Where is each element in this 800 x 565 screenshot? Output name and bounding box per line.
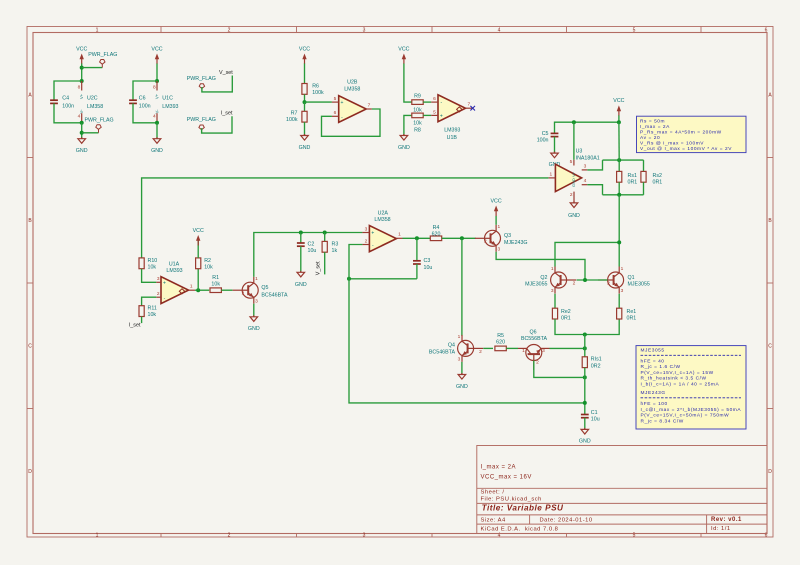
transistor Q5 BC546BTA xyxy=(233,277,259,304)
svg-text:LM393: LM393 xyxy=(166,268,182,274)
wire C6 bottom return xyxy=(133,103,157,122)
svg-text:C6: C6 xyxy=(139,95,146,101)
comparator U1B LM393 xyxy=(438,95,466,122)
U1B pin 6 inverting xyxy=(431,101,438,103)
svg-text:R2: R2 xyxy=(204,258,211,264)
svg-text:8: 8 xyxy=(78,85,81,91)
wire R7 to GND xyxy=(304,122,306,135)
junction divider node xyxy=(303,100,307,104)
svg-text:I_set: I_set xyxy=(129,323,141,329)
power flag for I_set net xyxy=(199,125,204,133)
svg-text:10k: 10k xyxy=(413,121,422,127)
wire R2 to VCC xyxy=(197,241,199,258)
svg-text:6: 6 xyxy=(334,110,337,116)
svg-text:1: 1 xyxy=(190,284,193,290)
wire to capacitor C4 xyxy=(54,81,82,100)
svg-text:VCC: VCC xyxy=(491,198,502,204)
power VCC (R2) xyxy=(193,228,204,246)
resistor Rs1 0R1 shunt xyxy=(618,160,620,171)
svg-text:100k: 100k xyxy=(312,90,324,96)
svg-text:MJE3055: MJE3055 xyxy=(525,281,547,287)
svg-text:+: + xyxy=(341,100,344,106)
wire R6 to junction xyxy=(304,94,306,102)
power GND (C5) xyxy=(549,152,561,169)
junction C2 top xyxy=(299,231,303,235)
wire Q6 emitter to RIs1 top xyxy=(541,347,550,349)
U3 pin 1 output xyxy=(548,177,555,179)
wire U3 pin5 supply xyxy=(573,122,575,160)
svg-text:Id: 1/1: Id: 1/1 xyxy=(711,526,731,532)
svg-text:PWR_FLAG: PWR_FLAG xyxy=(85,117,114,123)
svg-text:10u: 10u xyxy=(424,265,433,271)
wire PWR_FLAG to V_set xyxy=(202,76,232,92)
svg-text:VCC: VCC xyxy=(398,46,409,52)
svg-text:R6: R6 xyxy=(312,83,319,89)
resistor Re2 0R1 xyxy=(552,308,557,319)
svg-text:10k: 10k xyxy=(148,312,157,318)
svg-text:10u: 10u xyxy=(591,416,600,422)
capacitor C3 10u xyxy=(416,238,418,260)
wire divider to U2B pin5 xyxy=(305,101,332,103)
svg-text:5: 5 xyxy=(570,159,573,165)
op-amp U2A LM358 xyxy=(369,226,396,252)
power GND (block C4/U2C) xyxy=(76,137,88,154)
svg-text:1: 1 xyxy=(551,266,554,272)
svg-text:INA180A1: INA180A1 xyxy=(576,156,600,162)
wire R10 to U1A pin3 xyxy=(142,269,157,283)
wire R1 to Q5 base xyxy=(221,289,232,291)
svg-text:3: 3 xyxy=(363,28,366,34)
wire pin4 to gnd xyxy=(81,123,83,139)
wire Q6 base sense xyxy=(534,361,585,378)
svg-text:Av = 20: Av = 20 xyxy=(640,135,660,141)
title block xyxy=(477,446,767,534)
svg-text:GND V+: GND V+ xyxy=(571,171,576,187)
wire to bottom PWR_FLAG xyxy=(82,132,99,134)
svg-text:4: 4 xyxy=(78,114,81,120)
junction C4 bottom xyxy=(80,121,84,125)
wire C2 to GND xyxy=(300,246,302,272)
svg-text:LM358: LM358 xyxy=(374,217,390,223)
power VCC (block C6/U1C) xyxy=(151,46,162,64)
svg-text:D: D xyxy=(28,469,32,475)
power GND (block C6/U1C) xyxy=(151,137,163,154)
wire R8 to U1B pin5 xyxy=(423,114,431,116)
svg-text:RIs1: RIs1 xyxy=(591,356,602,362)
svg-text:MJE243G: MJE243G xyxy=(504,240,528,246)
svg-text:R_jc = 8.34 C/W: R_jc = 8.34 C/W xyxy=(641,418,684,424)
wire R11 to I_set xyxy=(141,317,143,324)
svg-text:I_max = 2A: I_max = 2A xyxy=(481,464,517,470)
power VCC (Q3) xyxy=(491,198,502,216)
svg-text:C1: C1 xyxy=(591,410,598,416)
junction Q3/Q4 drive node xyxy=(460,236,464,240)
svg-text:File: PSU.kicad_sch: File: PSU.kicad_sch xyxy=(481,496,542,502)
svg-text:R_th_heatsink < 3.5 C/W: R_th_heatsink < 3.5 C/W xyxy=(641,376,707,382)
wire Re2 to emitter rail xyxy=(555,319,619,335)
svg-text:3: 3 xyxy=(584,163,587,169)
svg-text:3: 3 xyxy=(363,533,366,539)
svg-text:I_set: I_set xyxy=(221,111,233,117)
svg-text:P(V_ce=15V,I_c=1A) = 15W: P(V_ce=15V,I_c=1A) = 15W xyxy=(641,370,714,376)
wire R5 to Q6 xyxy=(506,347,518,349)
wire R4 to Q3 base xyxy=(442,237,476,239)
wire R3 top xyxy=(324,233,326,242)
svg-text:5: 5 xyxy=(433,109,436,115)
junction emitter rail to RIs1 xyxy=(583,333,587,337)
svg-text:8: 8 xyxy=(153,85,156,91)
power GND (C1) xyxy=(579,428,591,445)
svg-text:4: 4 xyxy=(498,28,501,34)
wire Q4 base to R5 xyxy=(483,347,493,349)
svg-text:MJE3055: MJE3055 xyxy=(628,281,650,287)
svg-text:3: 3 xyxy=(621,288,624,294)
svg-text:Q3: Q3 xyxy=(504,233,511,239)
svg-text:2: 2 xyxy=(570,192,573,198)
svg-text:2: 2 xyxy=(242,291,245,297)
U1A open-collector mark xyxy=(179,289,184,294)
svg-text:10k: 10k xyxy=(148,264,157,270)
svg-text:LM358: LM358 xyxy=(87,104,103,110)
resistor RIs1 0R2 xyxy=(582,357,587,368)
wire U1A out to R1 xyxy=(195,289,209,291)
svg-text:VCC: VCC xyxy=(299,46,310,52)
power GND (Q4) xyxy=(456,373,468,390)
svg-text:V-: V- xyxy=(79,109,84,114)
wire VCC to R6 xyxy=(304,64,306,84)
wire shunt top rail xyxy=(603,159,644,161)
junction cap C4 top xyxy=(80,79,84,83)
junction shunt top xyxy=(617,158,621,162)
svg-text:GND: GND xyxy=(579,439,591,445)
wire C4 bottom return xyxy=(54,103,82,122)
svg-text:R8: R8 xyxy=(414,127,421,133)
svg-text:3: 3 xyxy=(551,288,554,294)
capacitor C4 100n xyxy=(50,100,58,103)
U2A pin 3 non-inverting xyxy=(362,232,369,234)
svg-text:PWR_FLAG: PWR_FLAG xyxy=(88,52,117,58)
svg-text:U1B: U1B xyxy=(447,135,458,141)
svg-text:hFE = 40: hFE = 40 xyxy=(641,358,665,364)
U1A pin 3 non-inverting xyxy=(156,281,161,283)
svg-text:LM393: LM393 xyxy=(162,104,178,110)
junction PWR_FLAG bottom node xyxy=(80,131,84,135)
junction RIs1 top node xyxy=(583,346,587,350)
wire U2B feedback loop xyxy=(322,109,381,136)
svg-text:1: 1 xyxy=(458,334,461,340)
svg-text:C2: C2 xyxy=(308,241,315,247)
svg-text:1: 1 xyxy=(497,224,500,230)
transistor Q1 MJE3055 xyxy=(598,267,624,294)
resistor Rs2 0R1 shunt xyxy=(643,160,645,171)
svg-text:PWR_FLAG: PWR_FLAG xyxy=(187,117,216,123)
junction VCC/PWR_FLAG node xyxy=(80,66,84,70)
wire VCC down to sense rail xyxy=(618,115,620,122)
svg-text:2: 2 xyxy=(607,280,610,286)
wire VCC down xyxy=(156,64,158,82)
svg-text:VCC: VCC xyxy=(613,98,624,104)
capacitor C5 100n xyxy=(551,133,559,136)
svg-text:KiCad E.D.A. kicad 7.0.8: KiCad E.D.A. kicad 7.0.8 xyxy=(481,526,559,532)
svg-text:1: 1 xyxy=(255,276,258,282)
power VCC (block C4/U2C) xyxy=(76,46,87,64)
junction C3 top xyxy=(415,236,419,240)
svg-text:Re1: Re1 xyxy=(627,309,637,315)
resistor R8 10k xyxy=(412,113,423,118)
svg-text:BC546BTA: BC546BTA xyxy=(429,350,456,356)
power flag PWR_FLAG top xyxy=(100,60,105,68)
wire Q4 emitter to GND xyxy=(461,362,463,375)
svg-text:Rs = 50m: Rs = 50m xyxy=(640,119,665,125)
wire C5 to GND xyxy=(554,137,556,154)
power VCC (U1B) xyxy=(398,46,409,64)
wire VCC to shunt xyxy=(618,122,620,160)
svg-text:GND: GND xyxy=(398,145,410,151)
svg-text:U1A: U1A xyxy=(169,261,180,267)
svg-text:R7: R7 xyxy=(291,110,298,116)
wire VCC to junction xyxy=(81,64,83,82)
svg-text:+: + xyxy=(163,281,166,287)
resistor R7 100k xyxy=(304,102,306,111)
wire VCC to R9 xyxy=(404,64,412,103)
U1A pin 1 output xyxy=(189,289,196,291)
svg-text:6: 6 xyxy=(433,96,436,102)
svg-text:GND: GND xyxy=(248,326,260,332)
U1B pin 5 non-inverting xyxy=(431,114,438,116)
svg-text:5: 5 xyxy=(334,96,337,102)
svg-text:Size: A4: Size: A4 xyxy=(481,517,507,523)
junction U3 supply tap xyxy=(572,120,576,124)
U3 pin 2 GND xyxy=(573,192,575,203)
U3 pin 3 +IN xyxy=(582,169,588,171)
svg-text:10k: 10k xyxy=(211,282,220,288)
svg-text:Q6: Q6 xyxy=(529,329,536,335)
svg-text:100n: 100n xyxy=(139,104,151,110)
wire RIs1 to output node xyxy=(584,368,586,415)
svg-text:Title: Variable PSU: Title: Variable PSU xyxy=(482,504,564,513)
transistor Q4 BC546BTA xyxy=(458,335,484,362)
resistor R6 100k xyxy=(302,84,307,95)
svg-text:R11: R11 xyxy=(148,306,157,312)
svg-text:I_c@I_max = 2*I_b(MJE3055) = 5: I_c@I_max = 2*I_b(MJE3055) = 50mA xyxy=(641,407,742,413)
svg-text:I_b(I_c=1A) = 1A / 40 = 25mA: I_b(I_c=1A) = 1A / 40 = 25mA xyxy=(641,381,720,387)
svg-text:Re2: Re2 xyxy=(561,309,571,315)
svg-text:PWR_FLAG: PWR_FLAG xyxy=(187,76,216,82)
wire pin4 to shunt bottom xyxy=(587,185,602,195)
svg-text:R3: R3 xyxy=(332,241,339,247)
wire drive node down to Q4 xyxy=(461,238,463,336)
capacitor C2 10u xyxy=(297,243,305,246)
svg-text:Sheet: /: Sheet: / xyxy=(481,490,505,496)
svg-text:Rs1: Rs1 xyxy=(628,173,637,179)
svg-text:BC546BTA: BC546BTA xyxy=(261,293,288,299)
svg-text:R5: R5 xyxy=(497,333,504,339)
svg-text:4: 4 xyxy=(584,178,587,184)
U2A pin 2 inverting xyxy=(362,244,369,246)
wire U3 output to R10 rail xyxy=(142,178,549,258)
power GND (Q5) xyxy=(248,315,260,332)
svg-text:hFE = 100: hFE = 100 xyxy=(641,401,668,407)
junction base rail xyxy=(583,278,587,282)
svg-text:100n: 100n xyxy=(537,138,549,144)
resistor R9 10k xyxy=(412,100,423,105)
junction feedback node xyxy=(347,277,351,281)
capacitor C1 10u xyxy=(581,415,589,418)
wire Q3 emitter to base rail xyxy=(496,252,585,280)
svg-text:VCC: VCC xyxy=(76,46,87,52)
resistor R10 10k xyxy=(139,258,144,269)
svg-text:V_set: V_set xyxy=(316,261,322,275)
svg-text:C: C xyxy=(28,344,32,350)
junction RIs1 bottom node xyxy=(583,375,587,379)
svg-text:+: + xyxy=(371,231,374,237)
svg-text:Q2: Q2 xyxy=(540,275,547,281)
transistor Q6 BC556BTA xyxy=(526,345,542,370)
svg-text:2: 2 xyxy=(157,291,160,297)
svg-text:Q4: Q4 xyxy=(448,342,455,348)
wire to PWR_FLAG xyxy=(82,67,103,69)
svg-text:1: 1 xyxy=(549,171,552,177)
svg-text:LM358: LM358 xyxy=(344,87,360,93)
amplifier U3 INA180A1 xyxy=(573,160,575,166)
wire base rail Q2-Q1 xyxy=(577,279,608,281)
svg-text:1: 1 xyxy=(621,266,624,272)
svg-text:Q5: Q5 xyxy=(261,285,268,291)
svg-text:2: 2 xyxy=(228,533,231,539)
svg-text:5: 5 xyxy=(633,28,636,34)
junction shunt bottom xyxy=(617,193,621,197)
junction U1A output node xyxy=(196,288,200,292)
svg-text:3: 3 xyxy=(157,276,160,282)
wire to capacitor C6 xyxy=(133,81,157,100)
svg-text:P_Rs_max = 4A*50m = 200mW: P_Rs_max = 4A*50m = 200mW xyxy=(640,130,722,136)
wire C1 to GND xyxy=(584,418,586,430)
svg-text:C5: C5 xyxy=(542,131,549,137)
capacitor C6 100n xyxy=(129,100,137,103)
resistor Re1 0R1 xyxy=(617,308,622,319)
power flag PWR_FLAG bottom xyxy=(96,125,101,133)
svg-text:I_max = 2A: I_max = 2A xyxy=(640,124,670,130)
svg-text:2: 2 xyxy=(365,238,368,244)
svg-text:V+: V+ xyxy=(79,93,84,99)
svg-text:P(V_ce=15V,I_c=50mA) = 750mW: P(V_ce=15V,I_c=50mA) = 750mW xyxy=(641,413,730,419)
svg-text:GND: GND xyxy=(295,282,307,288)
svg-text:+: + xyxy=(440,114,443,120)
junction C6 bottom xyxy=(155,121,159,125)
svg-text:R9: R9 xyxy=(414,94,421,100)
wire GND to R8 xyxy=(404,115,412,135)
wire shunt bottom rail xyxy=(603,194,644,196)
svg-text:R10: R10 xyxy=(148,258,158,264)
svg-text:620: 620 xyxy=(432,232,441,238)
U3 pin 4 -IN xyxy=(582,184,588,186)
wire pin3 to shunt top xyxy=(587,160,602,170)
wire U2A out to R4 xyxy=(403,237,431,239)
svg-text:0R1: 0R1 xyxy=(653,179,663,185)
power GND (C2) xyxy=(295,271,307,288)
U2A pin 1 output xyxy=(396,237,402,239)
wire PWR_FLAG to I_set xyxy=(202,116,232,133)
svg-text:V_set: V_set xyxy=(219,70,233,76)
svg-text:Rev: v0.1: Rev: v0.1 xyxy=(711,517,742,523)
svg-text:VCC_max = 16V: VCC_max = 16V xyxy=(481,474,532,480)
svg-text:2: 2 xyxy=(573,280,576,286)
svg-text:3: 3 xyxy=(458,357,461,363)
svg-text:GND: GND xyxy=(299,145,311,151)
svg-text:GND: GND xyxy=(568,213,580,219)
svg-text:2: 2 xyxy=(228,28,231,34)
svg-text:V-: V- xyxy=(155,109,160,114)
svg-text:VCC: VCC xyxy=(193,228,204,234)
svg-text:C4: C4 xyxy=(62,95,69,101)
svg-text:R_jc = 1.6 C/W: R_jc = 1.6 C/W xyxy=(641,364,681,370)
junction collector rail xyxy=(617,240,621,244)
U1B open-collector mark xyxy=(457,107,462,112)
wire pin2 to R11 xyxy=(142,297,157,306)
svg-text:V_Rs @ I_max = 100mV: V_Rs @ I_max = 100mV xyxy=(640,140,704,146)
svg-text:1: 1 xyxy=(96,28,99,34)
svg-text:R4: R4 xyxy=(433,225,440,231)
resistor R4 620 xyxy=(430,236,441,241)
resistor R1 10k xyxy=(210,288,221,293)
svg-text:7: 7 xyxy=(368,102,371,108)
U1A pin 2 inverting xyxy=(156,296,161,298)
svg-text:U2B: U2B xyxy=(347,80,358,86)
svg-text:U3: U3 xyxy=(576,148,583,154)
svg-text:C3: C3 xyxy=(424,258,431,264)
wire C2 xyxy=(300,233,302,244)
resistor R11 10k xyxy=(139,306,144,317)
svg-text:100k: 100k xyxy=(286,117,298,123)
junction VCC/C5 rail xyxy=(617,120,621,124)
svg-text:Date: 2024-01-10: Date: 2024-01-10 xyxy=(540,517,593,523)
svg-text:10k: 10k xyxy=(204,264,213,270)
svg-text:100n: 100n xyxy=(62,104,74,110)
svg-text:10u: 10u xyxy=(308,248,317,254)
svg-text:0R2: 0R2 xyxy=(591,364,601,370)
svg-text:D: D xyxy=(768,469,772,475)
wire shunt to output node xyxy=(618,195,620,267)
U1B pin 7 output xyxy=(466,107,473,109)
svg-text:V+: V+ xyxy=(155,93,160,99)
wire Q1 emitter to Re1 xyxy=(618,294,620,309)
wire Q6 pin1 xyxy=(518,347,527,349)
wire Q5 emitter to GND xyxy=(253,304,255,317)
wire C3 bottom to feedback xyxy=(349,278,417,280)
svg-text:0R1: 0R1 xyxy=(627,316,637,322)
svg-text:0R1: 0R1 xyxy=(561,316,571,322)
svg-text:V_out @ I_max = 100mV * Av = 2: V_out @ I_max = 100mV * Av = 2V xyxy=(640,146,732,152)
comparator U1C power unit pins xyxy=(156,81,158,91)
wire Q2 collector to output xyxy=(555,242,619,266)
wire C5 top rail xyxy=(555,122,619,133)
power flag for V_set net xyxy=(199,84,204,92)
wire R3 to V_set xyxy=(324,252,326,274)
svg-text:0R1: 0R1 xyxy=(628,179,638,185)
svg-text:3: 3 xyxy=(255,298,258,304)
wire Q3 collector to VCC xyxy=(495,216,497,225)
resistor R2 10k pullup xyxy=(197,269,199,291)
svg-text:GND: GND xyxy=(151,148,163,154)
svg-text:MJE243G: MJE243G xyxy=(641,390,666,396)
power VCC (R6 divider) xyxy=(299,46,310,64)
op-amp U2B LM358 xyxy=(339,96,367,123)
svg-text:1: 1 xyxy=(96,533,99,539)
svg-text:2: 2 xyxy=(479,349,482,355)
svg-text:LM393: LM393 xyxy=(444,128,460,134)
U2B pin 7 output xyxy=(366,108,372,110)
svg-text:VCC: VCC xyxy=(151,46,162,52)
